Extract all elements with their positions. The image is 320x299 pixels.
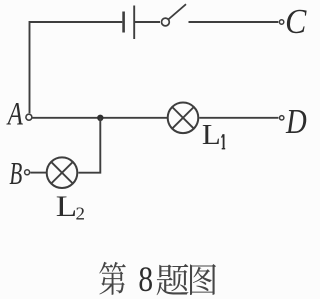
wire: node A to lamp L1 [32,117,167,119]
svg-text:8: 8 [138,260,153,299]
switch S (open): lever arm [169,4,186,19]
svg-text:2: 2 [75,204,85,223]
lamp L1: cross stroke 2 [172,107,194,129]
lamp L2: cross stroke 2 [51,162,73,184]
lamp L2: bulb circle [47,157,78,188]
lamp L2: cross stroke 1 [51,162,73,184]
wire: top rail left segment and left vertical drop to node A [30,22,123,113]
svg-text:C: C [285,3,307,42]
svg-text:L: L [202,119,221,151]
battery (cell): short thick negative plate [122,12,125,33]
battery (cell): long positive plate [133,6,135,40]
lamp L1: label subscript 1 [222,134,226,149]
node B: open terminal [25,170,30,175]
wire: junction down then left to lamp L2 [78,118,100,173]
node A: open terminal [26,114,32,120]
caption char 图 [190,264,216,295]
node D: open terminal [280,116,284,120]
wire: switch to node C [189,21,279,23]
junction dot on node A rail [97,115,103,121]
caption char 题 [157,264,189,295]
caption char 第 [99,262,125,295]
wire: node B to lamp L2 [30,172,46,174]
svg-text:B: B [9,156,22,191]
wire: lamp L1 to node D [199,117,278,119]
lamp L1: bulb circle [168,103,199,134]
node C: open terminal [279,20,283,24]
wire: battery to switch [135,21,160,23]
svg-text:D: D [285,101,307,141]
lamp L1: cross stroke 1 [172,107,194,129]
svg-text:L: L [56,190,77,223]
switch S (open): pivot ring [162,18,170,26]
svg-text:A: A [6,96,23,132]
